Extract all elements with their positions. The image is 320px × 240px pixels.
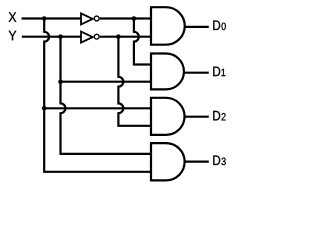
- wire vertical Y-not branch with two hops, down to gate G3 bottom: [118, 37, 151, 126]
- wire vertical Y branch with hop, down to gate G4 top: [61, 37, 152, 154]
- AND gate G4 (D3): [151, 143, 185, 180]
- wire output D2: [185, 116, 209, 118]
- label X: [9, 12, 17, 21]
- label D2: [213, 111, 225, 120]
- wire X-not from inverter U1 to gate G1 top: [100, 17, 151, 19]
- junction dot on Y at V2: [58, 34, 63, 39]
- junction dot on X-not at V4: [132, 16, 137, 21]
- AND gate G1 (D0): [151, 7, 185, 45]
- wire Y input: [22, 36, 81, 38]
- wire vertical X branch with hop over Y, down to gate G4 bottom: [44, 19, 151, 172]
- label D3: [213, 156, 225, 166]
- inverter U1 bubble: [94, 16, 99, 21]
- inverter U1 triangle: [81, 13, 93, 24]
- junction dot on X at V1: [42, 16, 47, 21]
- wire Y branch to gate G2 bottom: [61, 81, 152, 83]
- wire output D1: [184, 72, 209, 74]
- wire output D0: [185, 26, 209, 28]
- junction dot on V1 at G3 top branch: [42, 106, 47, 111]
- inverter U2 triangle: [81, 32, 93, 43]
- label Y: [9, 31, 17, 40]
- inverter U2 bubble: [94, 34, 99, 39]
- wire vertical X-not branch with hop, down to gate G2 top: [134, 19, 151, 65]
- wire Y-not from inverter U2 to gate G1 bottom: [100, 36, 151, 38]
- wire X input: [22, 17, 82, 19]
- label D1: [213, 67, 225, 76]
- AND gate G2 (D1): [151, 54, 184, 90]
- junction dot on Y-not at V3: [116, 34, 121, 39]
- label D0: [213, 21, 225, 31]
- AND gate G3 (D2): [151, 98, 185, 135]
- junction dot on V2 at G2 bottom branch: [58, 79, 63, 84]
- wire X branch to gate G3 top: [44, 107, 151, 109]
- wire output D3: [185, 161, 209, 163]
